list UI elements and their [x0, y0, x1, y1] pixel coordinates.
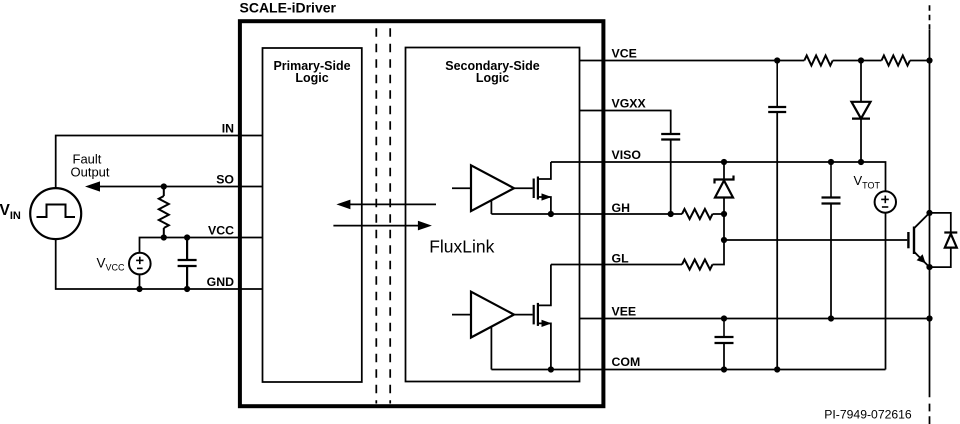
source V_IN pulse generator — [30, 188, 81, 239]
svg-text:Logic: Logic — [476, 71, 509, 85]
isolation barrier dashed line 1 — [375, 28, 377, 403]
node VEE/bus junction — [926, 315, 932, 321]
svg-text:VGXX: VGXX — [612, 97, 647, 111]
buffer U-high driver triangle — [471, 165, 514, 211]
FluxLink arrow right — [333, 221, 432, 231]
IGBT Q1 gate bar — [907, 232, 909, 248]
node VCE/C junction — [774, 57, 780, 63]
svg-text:GND: GND — [207, 275, 234, 289]
wire diode top — [860, 61, 862, 102]
wire GL net after resistor to gate node — [713, 240, 725, 265]
V_VCC plus sign — [136, 257, 143, 264]
resistor R-GH gate-on — [682, 209, 713, 219]
capacitor C-VCE — [768, 61, 786, 113]
wire buffer input stub — [452, 187, 471, 189]
wire GH node down to gate node — [723, 214, 725, 240]
diode D-VCE desat — [852, 102, 871, 119]
node V_VCC/GND junction — [136, 286, 142, 292]
wire zener top — [723, 162, 725, 180]
primary-side logic block — [263, 48, 362, 382]
capacitor C-VCC — [178, 238, 197, 290]
svg-text:FluxLink: FluxLink — [429, 236, 494, 256]
svg-text:GH: GH — [612, 201, 631, 215]
wire buffer low ground tap to COM — [490, 327, 492, 370]
wire Q-high source to GH — [538, 197, 551, 214]
svg-text:VCC: VCC — [208, 223, 234, 237]
wire C-COM bottom — [723, 343, 725, 370]
svg-text:VEE: VEE — [612, 305, 637, 319]
freewheel diode D-FW — [944, 233, 957, 248]
wire freewheel diode bottom jog — [930, 248, 951, 268]
Q-high source arrowhead — [542, 193, 552, 200]
wire GL net — [551, 264, 682, 266]
svg-text:VISO: VISO — [612, 148, 642, 162]
wire V_VCC to GND — [139, 274, 141, 289]
V_VCC minus sign — [137, 267, 143, 269]
node C-VGXX/GH junction — [668, 211, 674, 217]
wire Q-low source to COM — [538, 323, 551, 369]
wire Q-low drain to GL — [538, 265, 551, 306]
capacitor C-COM — [715, 319, 734, 344]
wire V_IN to IN pin — [56, 136, 263, 189]
DC bus line solid — [929, 30, 931, 397]
fault output arrowhead — [85, 181, 100, 191]
wire buffer output to MOSFET gate — [514, 187, 533, 189]
node diode/VISO junction — [858, 159, 864, 165]
wire VCE net segment 1 — [580, 60, 805, 62]
FluxLink arrow left — [336, 200, 436, 210]
resistor R-VCE1 — [804, 56, 832, 66]
node VCE/diode junction — [858, 57, 864, 63]
node Q-low source/COM junction — [548, 366, 554, 372]
svg-text:GL: GL — [612, 251, 630, 265]
wire V_IN to GND rail — [56, 239, 263, 289]
wire VCE net segment 2 — [833, 60, 882, 62]
svg-text:VCE: VCE — [612, 47, 637, 61]
wire VCE net segment 3 — [910, 60, 930, 62]
node C-VCE/COM junction — [774, 366, 780, 372]
svg-text:SO: SO — [216, 172, 234, 186]
wire SO line — [92, 186, 263, 188]
resistor R-SO pull-up — [159, 187, 169, 238]
node C-VCC bottom junction — [184, 286, 190, 292]
node Q-high source/GH junction — [548, 211, 554, 217]
wire diode bottom to VISO — [860, 119, 862, 162]
wire gate node to IGBT gate — [724, 239, 907, 241]
secondary-side logic block — [406, 48, 580, 382]
svg-text:SCALE-iDriver: SCALE-iDriver — [240, 0, 337, 16]
buffer U-low driver triangle — [471, 292, 514, 338]
wire buffer low output to MOSFET gate — [514, 314, 533, 316]
capacitor C-VGXX — [661, 134, 680, 140]
transistor Q-low channel bar — [537, 303, 539, 326]
wire C-VCE bottom to COM — [776, 112, 778, 370]
node VISO/zener junction — [721, 159, 727, 165]
wire VEE net — [580, 318, 930, 320]
IGBT Q1 collector lead — [914, 213, 930, 228]
wire buffer high ground tap to GH — [490, 200, 492, 214]
wire VGXX net — [580, 111, 671, 135]
svg-text:COM: COM — [612, 355, 641, 369]
V_IN pulse waveform — [37, 205, 76, 218]
IC U1 main box — [240, 21, 604, 406]
wire COM net — [491, 369, 885, 371]
V_TOT plus sign — [881, 196, 889, 204]
node resistor/VCC junction — [161, 234, 167, 240]
isolation barrier dashed line 2 — [389, 28, 391, 403]
zener diode D-Z clamp — [715, 176, 734, 198]
node C-VISO/VEE junction — [828, 315, 834, 321]
svg-text:IN: IN — [222, 121, 234, 135]
node SO/resistor junction — [161, 183, 167, 189]
node VEE/C-COM junction — [721, 315, 727, 321]
resistor R-GL gate-off — [682, 260, 713, 270]
node C-COM/COM junction — [721, 366, 727, 372]
wire Q-high drain to VISO — [538, 162, 551, 179]
wire C-VISO bottom to VEE — [830, 204, 832, 319]
node collector junction — [926, 210, 932, 216]
node emitter junction — [926, 264, 932, 270]
node gate junction — [721, 237, 727, 243]
V_TOT minus sign — [882, 206, 888, 208]
transistor Q-high gate bar — [533, 179, 535, 199]
transistor Q-low gate bar — [533, 305, 535, 325]
capacitor C-VISO — [822, 162, 841, 204]
IGBT Q1 emitter lead — [914, 252, 930, 267]
svg-text:Logic: Logic — [295, 71, 328, 85]
wire zener bottom to GH node — [723, 198, 725, 215]
DC bus line dashed bottom — [929, 404, 931, 424]
wire VCC line — [140, 238, 263, 253]
IGBT Q1 emitter arrowhead — [917, 254, 926, 263]
node C-VCC top junction — [184, 234, 190, 240]
DC bus line dashed top — [929, 5, 931, 30]
source V_VCC — [129, 253, 151, 275]
node GH/zener/gate junction — [721, 211, 727, 217]
wire C-VGXX to GH — [670, 140, 672, 215]
wire GH net after resistor — [713, 213, 725, 215]
IGBT Q1 channel bar — [913, 227, 915, 255]
node VCE/bus junction — [926, 57, 932, 63]
wire VISO net — [551, 162, 886, 191]
wire freewheel diode top jog — [930, 213, 951, 233]
Q-low source arrowhead — [542, 320, 552, 327]
resistor R-VCE2 — [882, 56, 910, 66]
source V_TOT — [875, 191, 896, 212]
node VISO/C-VISO junction — [828, 159, 834, 165]
wire V_TOT to COM — [885, 213, 887, 370]
wire buffer low input stub — [452, 314, 471, 316]
svg-text:Output: Output — [71, 165, 110, 180]
transistor Q-high channel bar — [537, 177, 539, 200]
svg-text:PI-7949-072616: PI-7949-072616 — [824, 408, 912, 422]
wire GH net — [491, 213, 682, 215]
